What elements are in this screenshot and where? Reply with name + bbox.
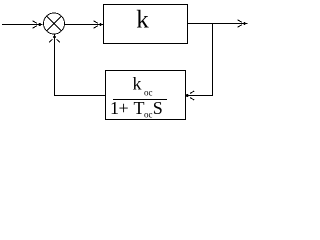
arrowhead into block 2: [190, 91, 194, 93]
summing junction: [44, 13, 65, 34]
svg-text:k: k: [133, 74, 142, 94]
wire feedback to block 2: [188, 95, 212, 97]
svg-text:S: S: [153, 98, 163, 118]
wire output: [188, 23, 245, 25]
svg-text:oc: oc: [144, 88, 153, 98]
svg-text:k: k: [136, 7, 149, 34]
arrowhead into block k: [94, 21, 98, 23]
svg-text:oc: oc: [144, 109, 153, 119]
block k: [104, 5, 188, 44]
svg-text:+: +: [119, 98, 129, 118]
arrowhead output: [238, 20, 242, 22]
arrowhead into summer bottom: [49, 39, 53, 42]
wire input: [2, 24, 40, 26]
wire feedback branch down: [212, 23, 214, 96]
block feedback transfer function: [106, 71, 186, 120]
wire summer to block k: [65, 24, 102, 26]
wire feedback up: [54, 37, 56, 96]
svg-text:T: T: [134, 98, 145, 118]
wire block 2 to left: [54, 95, 105, 97]
fraction bar: [113, 99, 167, 101]
arrowhead into summer: [33, 21, 37, 23]
